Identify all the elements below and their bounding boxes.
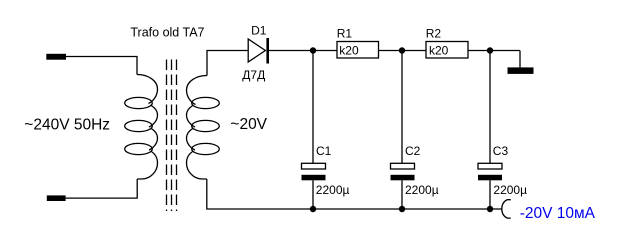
svg-text:R2: R2 — [426, 27, 442, 41]
terminal top-left — [46, 54, 66, 60]
wire secondary bottom rail — [207, 179, 503, 209]
svg-text:2200µ: 2200µ — [316, 183, 350, 197]
wire primary top — [66, 57, 137, 75]
node B junction — [399, 47, 405, 53]
resistor R1 — [337, 42, 379, 59]
svg-text:C3: C3 — [493, 144, 509, 158]
terminal bottom-left — [47, 195, 66, 201]
svg-text:~240V 50Hz: ~240V 50Hz — [24, 116, 110, 133]
node A junction — [310, 47, 316, 53]
svg-text:D1: D1 — [251, 24, 267, 38]
capacitor C1 wires — [312, 51, 314, 210]
svg-text:R1: R1 — [337, 27, 353, 41]
node C junction — [487, 47, 493, 53]
capacitor C1 — [302, 163, 326, 169]
ground — [508, 67, 534, 74]
wire to ground — [519, 51, 521, 68]
resistor R2 — [426, 42, 468, 59]
svg-text:k20: k20 — [339, 43, 359, 57]
diode D1 — [248, 39, 265, 62]
svg-text:Д7Д: Д7Д — [242, 68, 265, 82]
capacitor C2 wires — [401, 51, 403, 210]
svg-text:C2: C2 — [405, 144, 421, 158]
svg-text:C1: C1 — [316, 144, 332, 158]
transformer T1 primary winding — [125, 75, 158, 180]
svg-text:k20: k20 — [429, 43, 449, 57]
svg-text:2200µ: 2200µ — [405, 183, 439, 197]
svg-text:~20V: ~20V — [230, 116, 267, 133]
transformer T1 secondary winding — [187, 76, 220, 180]
svg-text:2200µ: 2200µ — [493, 183, 527, 197]
wire R1 to node B — [379, 50, 427, 52]
wire secondary top to diode — [207, 51, 248, 76]
wire primary bottom — [66, 179, 138, 198]
capacitor C3 — [478, 163, 502, 169]
transformer core — [167, 60, 177, 212]
node A2 junction — [310, 206, 316, 212]
node C2 junction — [487, 206, 493, 212]
wire R2 to node C — [468, 50, 520, 52]
capacitor C2 — [391, 163, 415, 169]
capacitor C3 wires — [489, 51, 491, 210]
wire diode to node A — [269, 50, 337, 52]
svg-text:-20V 10мА: -20V 10мА — [520, 205, 596, 222]
node B2 junction — [399, 206, 405, 212]
svg-text:Trafo old TA7: Trafo old TA7 — [130, 25, 204, 39]
output socket — [502, 200, 511, 218]
